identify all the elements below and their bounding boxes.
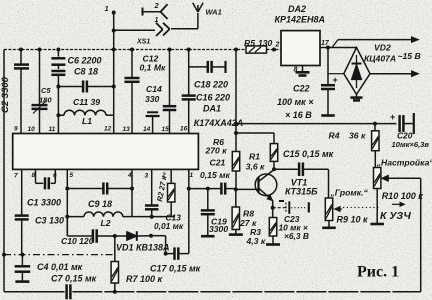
connector XS1 pin 1 contact xyxy=(114,23,170,36)
svg-text:9: 9 xyxy=(14,126,18,133)
connector XS1 pin 1 label xyxy=(155,17,159,24)
resistor R1 3.6k xyxy=(270,144,277,170)
resistor R8 27k xyxy=(229,189,243,234)
capacitor C12 0.1 xyxy=(125,50,140,134)
regulator DA2 pin 2 label xyxy=(275,42,280,49)
svg-text:12: 12 xyxy=(104,126,112,133)
regulator DA2 box xyxy=(281,31,320,66)
capacitor C23 label xyxy=(279,214,309,241)
capacitor C2 3300 xyxy=(14,50,29,134)
capacitor on pin 15 xyxy=(163,50,177,134)
node junction C17 left xyxy=(164,252,168,256)
resistor R3 4.3k xyxy=(266,208,280,245)
svg-text:100 мк ×: 100 мк × xyxy=(277,97,314,107)
resistor R10 label xyxy=(382,191,424,201)
wire DA2 pin 17 xyxy=(320,46,330,50)
svg-text:С2 3300: С2 3300 xyxy=(0,76,11,113)
AC 15V label xyxy=(398,51,421,61)
antenna WA1 xyxy=(193,3,203,29)
ground DA2 pin 8 xyxy=(296,66,310,76)
capacitor C5 label xyxy=(39,86,52,104)
svg-text:С16 220: С16 220 xyxy=(196,93,230,103)
inductor L1 xyxy=(58,87,113,134)
capacitor C19 label xyxy=(209,217,228,235)
node junction C11 right xyxy=(112,85,116,89)
capacitor C19 3300 xyxy=(201,189,215,237)
node junction base xyxy=(234,187,238,191)
svg-text:3300: 3300 xyxy=(209,224,228,234)
node junction pin1 C21 xyxy=(187,187,191,191)
resistor R9 label xyxy=(337,215,369,225)
svg-text:С22: С22 xyxy=(293,84,310,94)
svg-text:4,3 к: 4,3 к xyxy=(246,236,266,246)
wire pin 16 upper xyxy=(188,50,190,67)
svg-text:С14: С14 xyxy=(146,84,162,94)
resistor R4 36k xyxy=(372,124,379,168)
resistor R4 label xyxy=(329,131,366,141)
capacitor C18 220 xyxy=(189,61,226,73)
inductor L2 xyxy=(67,212,132,217)
IC DA1 bottom pin labels xyxy=(14,172,194,180)
svg-text:2: 2 xyxy=(275,42,280,49)
svg-text:R5: R5 xyxy=(244,38,255,48)
resistor R2 27k xyxy=(168,169,175,216)
capacitor C1 label xyxy=(27,198,61,208)
capacitor C6 2200 xyxy=(51,50,65,70)
wire pin5 node to C10 xyxy=(67,217,93,236)
capacitor C17 label xyxy=(150,264,201,274)
node junction VD1 cathode xyxy=(149,234,153,238)
capacitor C9 label xyxy=(88,199,112,209)
connector XS1 label xyxy=(136,39,150,46)
svg-text:330: 330 xyxy=(145,94,160,104)
svg-text:~15 В: ~15 В xyxy=(398,51,421,61)
svg-text:DA2: DA2 xyxy=(288,4,306,14)
svg-text:R8: R8 xyxy=(243,209,254,219)
antenna WA1 label xyxy=(206,8,222,17)
wire pin 5 down xyxy=(66,169,68,236)
svg-text:L1: L1 xyxy=(82,116,92,126)
svg-text:КР142ЕН8А: КР142ЕН8А xyxy=(275,15,326,25)
resistor R6 270k xyxy=(232,152,239,190)
capacitor C15 label xyxy=(283,149,334,159)
capacitor C11 label xyxy=(73,97,100,107)
wire C15 to R9 xyxy=(328,169,330,198)
svg-text:КЦ407А: КЦ407А xyxy=(364,54,396,64)
capacitor C4 label xyxy=(37,262,83,272)
svg-text:0,01 мк: 0,01 мк xyxy=(154,221,184,231)
resistor R7 100k xyxy=(111,236,118,294)
capacitor C8 18 xyxy=(51,71,65,87)
capacitor C16 label xyxy=(196,93,230,103)
wire tuning rail xyxy=(2,253,115,257)
svg-text:С6 2200: С6 2200 xyxy=(68,56,102,66)
svg-text:С3 130: С3 130 xyxy=(35,216,64,226)
wire AC upper arrow xyxy=(332,37,419,48)
svg-text:R1: R1 xyxy=(249,152,260,162)
node junction C6 C8 C11 xyxy=(56,85,60,89)
svg-text:7: 7 xyxy=(14,173,18,180)
wire right border xyxy=(420,178,422,291)
svg-text:С10 120: С10 120 xyxy=(61,236,94,246)
capacitor C9 18 xyxy=(67,183,132,195)
svg-text:1: 1 xyxy=(190,172,194,179)
svg-text:130: 130 xyxy=(258,38,273,48)
svg-text:5: 5 xyxy=(70,172,74,179)
capacitor C20 label xyxy=(392,131,430,150)
svg-text:Рис. 1: Рис. 1 xyxy=(357,264,399,281)
node junction L1 left xyxy=(56,113,60,117)
svg-text:10мк×6,3в: 10мк×6,3в xyxy=(392,140,430,149)
svg-text:×6,3 В: ×6,3 В xyxy=(284,231,309,241)
svg-text:R4: R4 xyxy=(329,131,340,141)
resistor R8 label xyxy=(239,209,257,229)
node 1 label xyxy=(105,4,109,13)
svg-text:3,6 к: 3,6 к xyxy=(246,162,265,172)
wire tank rail xyxy=(132,216,175,218)
capacitor C10 120 xyxy=(93,229,115,243)
capacitor C22 100mk xyxy=(321,48,338,116)
ground VD2 xyxy=(351,94,363,100)
node junction dots on top bus xyxy=(19,48,276,52)
inductor L2 label xyxy=(101,218,111,228)
capacitor C3 label xyxy=(35,216,64,226)
capacitor C6 label xyxy=(68,56,102,66)
rectifier VD2 bridge xyxy=(344,48,370,95)
svg-text:× 16 В: × 16 В xyxy=(285,110,312,120)
capacitor C18 label xyxy=(194,80,228,90)
wire pin 4 down xyxy=(131,169,133,216)
output K UZCh label xyxy=(380,202,411,222)
svg-text:С8 18: С8 18 xyxy=(74,67,98,77)
node junction collector xyxy=(272,167,276,171)
regulator DA2 pin 17 label xyxy=(321,40,330,47)
svg-text:WA1: WA1 xyxy=(206,8,222,17)
wire pin 1 vertical xyxy=(188,169,190,253)
node junction C21 C19 xyxy=(206,187,210,191)
svg-text:С5: С5 xyxy=(41,86,51,95)
svg-text:С15 0,15 мк: С15 0,15 мк xyxy=(283,149,334,159)
svg-text:+: + xyxy=(390,112,395,122)
wire top bus xyxy=(4,49,281,51)
resistor R7 label xyxy=(126,274,163,284)
wire VD1 to C17 xyxy=(151,236,166,254)
svg-text:+: + xyxy=(333,75,338,85)
svg-text:180: 180 xyxy=(39,95,52,104)
capacitor C16 220 xyxy=(182,67,196,134)
node junction C13 bottom xyxy=(150,215,154,219)
svg-text:36 к: 36 к xyxy=(349,131,366,141)
svg-text:15: 15 xyxy=(162,126,170,133)
svg-text:R10 100 к: R10 100 к xyxy=(382,191,424,201)
wire node1 to pin 12 xyxy=(113,50,115,134)
capacitor C21 0.15 xyxy=(208,183,236,195)
svg-text:0,15 мк: 0,15 мк xyxy=(200,170,230,180)
svg-text:С11 39: С11 39 xyxy=(73,97,100,107)
capacitor C1 3300 bracket xyxy=(36,169,56,189)
svg-text:С18 220: С18 220 xyxy=(194,80,228,90)
IC DA1 designator xyxy=(194,104,244,129)
capacitor C8 label xyxy=(74,67,98,77)
capacitor C21 label xyxy=(200,158,230,181)
regulator DA2 designator xyxy=(275,4,326,25)
wire AC lower arrow xyxy=(370,71,419,77)
capacitor C10 label xyxy=(61,236,94,246)
resistor R1 label xyxy=(246,152,265,172)
node junction emitter xyxy=(271,206,275,210)
svg-text:XS1: XS1 xyxy=(136,39,150,46)
wire bottom rail xyxy=(4,291,421,293)
svg-text:11: 11 xyxy=(49,126,56,133)
capacitor C14 label xyxy=(145,84,162,104)
capacitor C13 0.01 xyxy=(145,169,159,216)
svg-text:VD1 КВ138А: VD1 КВ138А xyxy=(116,243,170,253)
tuning label xyxy=(376,158,432,168)
resistor R3 label xyxy=(246,227,266,246)
diode VD1 label xyxy=(116,243,170,253)
IC DA1 top pin labels xyxy=(14,126,188,134)
capacitor C5 wire xyxy=(39,50,41,134)
capacitor C11 39 xyxy=(58,81,113,93)
resistor R10 wiper xyxy=(382,175,421,181)
transistor VT1 collector xyxy=(259,170,275,182)
capacitor C13 label xyxy=(154,213,184,232)
svg-text:С21: С21 xyxy=(210,158,226,168)
svg-text:3: 3 xyxy=(145,173,149,180)
transistor VT1 circle xyxy=(255,174,277,196)
svg-text:16: 16 xyxy=(180,126,188,133)
connector XS1 pin 2 label xyxy=(154,1,160,10)
resistor R5 130 xyxy=(246,46,267,53)
wire antenna to XS1 xyxy=(171,28,198,30)
capacitor C12 label xyxy=(140,54,166,73)
capacitor C23 10mk xyxy=(273,201,309,214)
wire pin1 to C21 node xyxy=(189,188,208,190)
svg-text:0,1 Мк: 0,1 Мк xyxy=(140,63,166,73)
capacitor C22 label xyxy=(277,84,314,121)
svg-text:R9 10 к: R9 10 к xyxy=(337,215,369,225)
resistor R9 10k pot xyxy=(322,198,342,228)
wire dotted to output xyxy=(343,206,379,208)
resistor R6 label xyxy=(205,137,228,156)
volume label xyxy=(330,188,369,198)
regulator DA2 pin 8 label xyxy=(294,67,298,74)
node junction C9 right xyxy=(130,187,134,191)
svg-text:2: 2 xyxy=(154,1,160,10)
capacitor C17 0.15 xyxy=(166,247,189,260)
svg-text:14: 14 xyxy=(143,126,151,133)
svg-text:R7 100 к: R7 100 к xyxy=(126,274,163,284)
svg-text:„Настройка“: „Настройка“ xyxy=(376,158,432,168)
svg-text:С20: С20 xyxy=(397,131,413,141)
svg-text:1: 1 xyxy=(105,4,109,13)
capacitor C5 trimmer xyxy=(32,101,48,114)
svg-text:С17 0,15 мк: С17 0,15 мк xyxy=(150,264,201,274)
transistor VT1 emitter xyxy=(259,188,273,208)
op-amp IC DA1 box xyxy=(13,134,199,170)
svg-text:С7 0,15 мк: С7 0,15 мк xyxy=(51,274,97,284)
resistor R10 100k pot xyxy=(370,168,384,225)
capacitor C3 130 xyxy=(15,169,29,254)
resistor R2 label xyxy=(155,174,169,202)
svg-text:С9 18: С9 18 xyxy=(88,199,112,209)
wire R1 feed xyxy=(236,133,274,144)
capacitor C7 0.15 xyxy=(67,284,71,299)
capacitor C2 label xyxy=(0,76,11,113)
svg-text:10: 10 xyxy=(28,126,36,133)
node junction L2 left xyxy=(65,215,69,219)
svg-text:К УЗЧ: К УЗЧ xyxy=(380,210,411,222)
wire supply rail xyxy=(236,122,396,126)
resistor R5 label xyxy=(244,38,273,48)
wire bus to R6 xyxy=(234,50,238,152)
wire bridge left stub xyxy=(328,73,344,75)
svg-text:КТ315Б: КТ315Б xyxy=(285,187,318,197)
svg-text:13: 13 xyxy=(123,126,131,133)
capacitor C15 0.15 xyxy=(274,162,329,176)
svg-text:L2: L2 xyxy=(101,218,111,228)
node junction C9 left xyxy=(65,187,69,191)
capacitor C7 label xyxy=(51,274,97,284)
wire DA2 to bridge xyxy=(328,47,357,49)
inductor L1 label xyxy=(82,116,92,126)
capacitor C4 0.01 xyxy=(15,255,31,282)
capacitor C20 10mk xyxy=(390,112,414,134)
svg-text:„Громк.“: „Громк.“ xyxy=(330,188,369,198)
figure caption xyxy=(357,264,399,281)
node 1 wire xyxy=(112,11,116,50)
transistor VT1 base xyxy=(236,178,259,193)
diode VD1 KB138A xyxy=(115,231,151,241)
svg-text:С1 3300: С1 3300 xyxy=(27,198,61,208)
svg-text:DA1: DA1 xyxy=(203,104,221,114)
rectifier VD2 label xyxy=(364,43,396,64)
svg-text:С4 0,01 мк: С4 0,01 мк xyxy=(37,262,83,272)
capacitor C14 330 xyxy=(146,112,160,133)
svg-text:VD2: VD2 xyxy=(374,43,391,53)
wire left border xyxy=(3,50,5,292)
transistor VT1 label xyxy=(285,178,318,197)
svg-text:270 к: 270 к xyxy=(205,146,228,156)
node junction VD1 anode R7 xyxy=(113,234,117,238)
connector XS1 pin 2 contact xyxy=(143,4,168,19)
